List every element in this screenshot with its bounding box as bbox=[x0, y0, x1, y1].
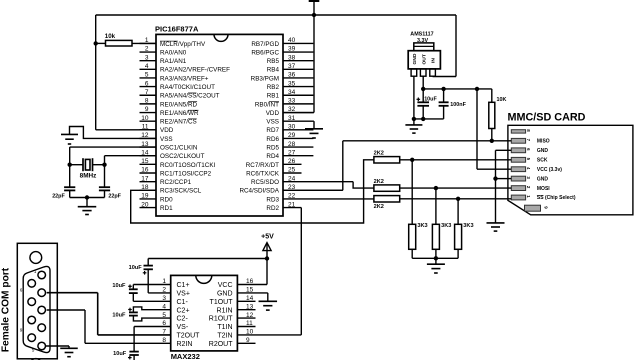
svg-text:R2OUT: R2OUT bbox=[209, 341, 233, 348]
svg-text:24: 24 bbox=[288, 175, 296, 182]
svg-text:3: 3 bbox=[145, 54, 149, 61]
svg-text:RB7/PGD: RB7/PGD bbox=[251, 41, 279, 48]
svg-text:2K2: 2K2 bbox=[374, 151, 384, 157]
svg-text:28: 28 bbox=[288, 141, 296, 148]
svg-text:4: 4 bbox=[145, 63, 149, 70]
svg-text:RB2: RB2 bbox=[267, 84, 280, 91]
svg-text:R1OUT: R1OUT bbox=[209, 316, 233, 323]
svg-text:RA5/AN4/SS/C2OUT: RA5/AN4/SS/C2OUT bbox=[160, 93, 220, 100]
svg-text:10K: 10K bbox=[497, 97, 507, 103]
svg-text:17: 17 bbox=[141, 175, 149, 182]
svg-text:7: 7 bbox=[145, 89, 149, 96]
svg-text:10k: 10k bbox=[105, 33, 116, 40]
svg-text:RD7: RD7 bbox=[266, 127, 279, 134]
svg-text:R1IN: R1IN bbox=[217, 307, 233, 314]
svg-text:8: 8 bbox=[145, 98, 149, 105]
svg-text:C2-: C2- bbox=[177, 316, 189, 323]
svg-text:22: 22 bbox=[288, 193, 296, 200]
svg-text:RB5: RB5 bbox=[267, 58, 280, 65]
svg-text:RE2/AN7/CS: RE2/AN7/CS bbox=[160, 119, 197, 126]
svg-text:RB1: RB1 bbox=[267, 93, 280, 100]
svg-text:C1-: C1- bbox=[177, 299, 189, 306]
svg-text:Female COM port: Female COM port bbox=[1, 267, 12, 352]
svg-text:RB0/INT: RB0/INT bbox=[255, 101, 279, 108]
svg-text:10uF: 10uF bbox=[113, 351, 127, 357]
svg-text:OUT: OUT bbox=[421, 54, 427, 64]
svg-text:OSC2/CLKOUT: OSC2/CLKOUT bbox=[160, 153, 205, 160]
svg-text:RA0/AN0: RA0/AN0 bbox=[160, 49, 187, 56]
svg-text:35: 35 bbox=[288, 80, 296, 87]
svg-text:19: 19 bbox=[141, 193, 149, 200]
svg-text:RC5/SDO: RC5/SDO bbox=[251, 179, 279, 186]
svg-text:10uF: 10uF bbox=[424, 97, 437, 103]
svg-text:SS (Chip Select): SS (Chip Select) bbox=[537, 195, 576, 201]
svg-text:PIC16F877A: PIC16F877A bbox=[155, 25, 199, 34]
svg-text:GND: GND bbox=[217, 291, 233, 298]
svg-text:AMS1117: AMS1117 bbox=[410, 31, 433, 37]
svg-text:RD3: RD3 bbox=[266, 196, 279, 203]
svg-text:6: 6 bbox=[145, 80, 149, 87]
svg-text:T2OUT: T2OUT bbox=[177, 333, 201, 340]
svg-text:MMC/SD CARD: MMC/SD CARD bbox=[508, 112, 586, 124]
svg-text:8MHz: 8MHz bbox=[80, 172, 97, 179]
svg-text:MISO: MISO bbox=[537, 139, 550, 145]
svg-text:27: 27 bbox=[288, 149, 296, 156]
svg-text:3.3V: 3.3V bbox=[417, 38, 428, 44]
svg-text:10: 10 bbox=[246, 329, 254, 336]
svg-text:3K3: 3K3 bbox=[463, 223, 473, 229]
svg-text:2K2: 2K2 bbox=[374, 204, 384, 210]
svg-text:T1OUT: T1OUT bbox=[210, 299, 234, 306]
svg-text:39: 39 bbox=[288, 46, 296, 53]
svg-text:T1IN: T1IN bbox=[217, 324, 232, 331]
svg-text:2: 2 bbox=[145, 46, 149, 53]
svg-text:5: 5 bbox=[145, 72, 149, 79]
svg-text:MOSI: MOSI bbox=[537, 186, 550, 192]
svg-text:38: 38 bbox=[288, 54, 296, 61]
svg-text:T2IN: T2IN bbox=[217, 333, 232, 340]
svg-text:VSS: VSS bbox=[160, 136, 173, 143]
svg-text:30: 30 bbox=[288, 124, 296, 131]
svg-text:3K3: 3K3 bbox=[417, 223, 427, 229]
svg-text:RB4: RB4 bbox=[267, 67, 280, 74]
svg-text:RB3/PGM: RB3/PGM bbox=[251, 75, 279, 82]
svg-text:RC0/T1OSO/T1CKI: RC0/T1OSO/T1CKI bbox=[160, 162, 216, 169]
svg-text:VCC: VCC bbox=[218, 282, 233, 289]
svg-text:VDD: VDD bbox=[160, 127, 174, 134]
svg-text:34: 34 bbox=[288, 89, 296, 96]
svg-text:MCLR/Vpp/THV: MCLR/Vpp/THV bbox=[160, 41, 206, 48]
svg-text:21: 21 bbox=[288, 201, 296, 208]
svg-text:100nF: 100nF bbox=[450, 102, 466, 108]
svg-text:RA1/AN1: RA1/AN1 bbox=[160, 58, 187, 65]
svg-text:VS-: VS- bbox=[177, 324, 189, 331]
svg-text:10uF: 10uF bbox=[112, 312, 126, 318]
svg-text:31: 31 bbox=[288, 115, 296, 122]
svg-text:36: 36 bbox=[288, 72, 296, 79]
svg-text:3K3: 3K3 bbox=[441, 223, 451, 229]
svg-text:VSS: VSS bbox=[266, 119, 279, 126]
svg-text:C1+: C1+ bbox=[177, 282, 190, 289]
svg-text:VS+: VS+ bbox=[177, 291, 190, 298]
svg-text:15: 15 bbox=[141, 158, 149, 165]
svg-text:RA2/AN2/VREF-/CVREF: RA2/AN2/VREF-/CVREF bbox=[160, 67, 230, 74]
svg-text:10uF: 10uF bbox=[129, 265, 143, 271]
svg-text:20: 20 bbox=[141, 201, 149, 208]
svg-text:RC2/CCP1: RC2/CCP1 bbox=[160, 179, 192, 186]
svg-text:RE0/AN5/RD: RE0/AN5/RD bbox=[160, 101, 198, 108]
svg-text:RD0: RD0 bbox=[160, 196, 173, 203]
svg-text:22pF: 22pF bbox=[108, 194, 121, 200]
svg-text:VDD: VDD bbox=[266, 110, 280, 117]
svg-text:GND: GND bbox=[537, 176, 549, 182]
svg-text:RC4/SDI/SDA: RC4/SDI/SDA bbox=[239, 188, 279, 195]
svg-text:SCK: SCK bbox=[537, 158, 548, 164]
svg-text:RA4/T0CKI/C1OUT: RA4/T0CKI/C1OUT bbox=[160, 84, 215, 91]
svg-text:RD4: RD4 bbox=[266, 153, 279, 160]
svg-text:MAX232: MAX232 bbox=[171, 352, 200, 360]
svg-text:GND: GND bbox=[412, 53, 418, 64]
svg-text:RC3/SCK/SCL: RC3/SCK/SCL bbox=[160, 188, 202, 195]
svg-text:22pF: 22pF bbox=[52, 194, 65, 200]
svg-text:GND: GND bbox=[537, 148, 549, 154]
svg-text:OSC1/CLKIN: OSC1/CLKIN bbox=[160, 144, 198, 151]
svg-text:RA3/AN3/VREF+: RA3/AN3/VREF+ bbox=[160, 75, 209, 82]
svg-text:10: 10 bbox=[141, 115, 149, 122]
svg-text:2K2: 2K2 bbox=[374, 179, 384, 185]
svg-text:RC7/RX/DT: RC7/RX/DT bbox=[246, 162, 279, 169]
svg-text:33: 33 bbox=[288, 98, 296, 105]
svg-text:9: 9 bbox=[145, 106, 149, 113]
svg-text:RE1/AN6/WR: RE1/AN6/WR bbox=[160, 110, 199, 117]
svg-text:R2IN: R2IN bbox=[177, 341, 193, 348]
svg-text:VCC (3.3v): VCC (3.3v) bbox=[537, 167, 562, 173]
svg-text:C2+: C2+ bbox=[177, 307, 190, 314]
svg-text:16: 16 bbox=[141, 167, 149, 174]
svg-text:25: 25 bbox=[288, 167, 296, 174]
svg-text:RD1: RD1 bbox=[160, 205, 173, 212]
svg-text:37: 37 bbox=[288, 63, 296, 70]
svg-text:RC1/T1OSI/CCP2: RC1/T1OSI/CCP2 bbox=[160, 170, 212, 177]
svg-text:RB6/PGC: RB6/PGC bbox=[251, 49, 279, 56]
svg-text:40: 40 bbox=[288, 37, 296, 44]
svg-text:RD2: RD2 bbox=[266, 205, 279, 212]
svg-text:RD6: RD6 bbox=[266, 136, 279, 143]
svg-text:+5V: +5V bbox=[261, 234, 274, 241]
svg-text:29: 29 bbox=[288, 132, 296, 139]
svg-text:RC6/TX/CK: RC6/TX/CK bbox=[246, 170, 280, 177]
svg-text:IN: IN bbox=[431, 58, 437, 63]
svg-text:RD5: RD5 bbox=[266, 144, 279, 151]
svg-text:26: 26 bbox=[288, 158, 296, 165]
svg-text:10uF: 10uF bbox=[112, 283, 126, 289]
